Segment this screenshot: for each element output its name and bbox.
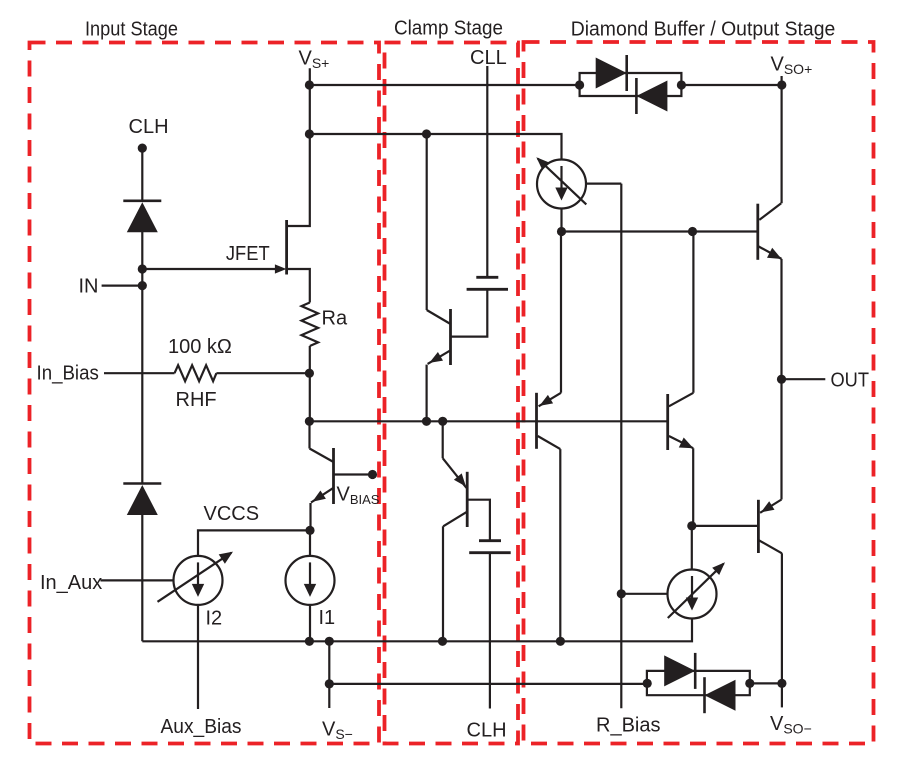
transistor Q3 collector diagonal <box>443 512 466 526</box>
transistor Q6 base bar <box>756 204 759 260</box>
wire D2 anode down to bottom rail <box>141 514 143 642</box>
diode pair D5/D6 (bottom, anti-parallel): frame <box>647 671 750 695</box>
wire I2 bottom to Aux_Bias pin <box>197 605 199 709</box>
resistor RHF 100 kOhm (zigzag) <box>175 365 217 381</box>
wire I3 control to R_Bias line <box>586 183 621 185</box>
transistor Q4 collector diagonal <box>538 436 561 449</box>
svg-text:OUT: OUT <box>831 369 870 391</box>
transistor Q3 emitter diagonal with arrow into bar <box>443 458 467 488</box>
node Q2 emitter junction <box>422 417 431 426</box>
JFET gate arrow <box>275 264 287 273</box>
node Q3 emitter junction <box>438 417 447 426</box>
node base-rail junction <box>305 417 314 426</box>
transistor Q7 (PNP, output low): emitter diagonal with arrow into bar <box>760 500 781 513</box>
wire node C down to current source I4 <box>691 526 693 569</box>
node diode pair right junction <box>677 80 686 89</box>
wire Q3 collector down to bottom rail <box>442 526 444 641</box>
wire node A down to Q4 emitter <box>560 232 562 393</box>
pin In_Aux stub wire <box>101 579 174 581</box>
node diode pair left junction <box>575 80 584 89</box>
wire Q5 collector up to node B <box>692 232 694 393</box>
node B (Q5 collector / rail junction) <box>688 227 697 236</box>
diode D4 (points left) <box>636 81 667 112</box>
wire Q4 collector down to bottom rail <box>559 449 561 641</box>
current source I4 (bottom, variable) <box>668 570 717 619</box>
wire diode pair to VSO- line <box>750 682 782 684</box>
stage boundary: Clamp Stage box <box>385 43 519 744</box>
JFET drain wire to VS+ line <box>287 68 310 226</box>
current source I4 variable arrow (diagonal up-right) <box>668 564 724 618</box>
svg-text:Clamp Stage: Clamp Stage <box>394 18 503 40</box>
transistor Q4 base bar <box>535 393 538 449</box>
svg-text:I2: I2 <box>206 608 223 630</box>
transistor Q2 collector diagonal <box>427 310 451 324</box>
node I1 bottom junction <box>305 637 314 646</box>
node In_Bias junction <box>305 369 314 378</box>
node VSO+ junction <box>777 80 786 89</box>
svg-text:VCCS: VCCS <box>204 503 260 525</box>
transistor Q3 base wire to battery VCLH <box>467 500 490 540</box>
diode D5 (points right) <box>664 655 695 686</box>
svg-text:Diamond Buffer / Output Stage: Diamond Buffer / Output Stage <box>571 19 836 41</box>
node diode pair right junction (bottom) <box>745 679 754 688</box>
svg-text:In_Aux: In_Aux <box>40 572 102 594</box>
transistor Q2 emitter with arrow <box>428 350 451 364</box>
current source I1 (fixed) <box>286 556 335 605</box>
transistor Q6 emitter with arrow <box>758 246 782 259</box>
svg-text:I1: I1 <box>319 607 336 629</box>
current source I3 (top, variable) <box>537 160 586 209</box>
wire VS- down-leg <box>328 641 330 708</box>
pin VSO+ label and stub <box>780 76 782 85</box>
svg-text:Input Stage: Input Stage <box>85 19 178 41</box>
current source I1 wire from VCCS junction <box>309 530 311 556</box>
svg-text:100 kΩ: 100 kΩ <box>168 336 232 358</box>
diode D6 (points left) <box>705 680 736 711</box>
svg-text:CLH: CLH <box>467 720 507 742</box>
JFET J1 channel bar <box>285 220 288 275</box>
svg-text:Ra: Ra <box>322 308 348 330</box>
node VSO- junction <box>777 679 786 688</box>
transistor Q5 emitter with arrow <box>669 436 693 448</box>
transistor Q1 (NPN, VBIAS buffer): collector diagonal <box>310 449 334 463</box>
pin IN stub <box>102 285 143 287</box>
wire lower rail y=684 to output stage <box>329 683 647 685</box>
current source I2 (variable VCCS) <box>174 556 223 605</box>
wire VSO- pin stub <box>781 683 783 707</box>
wire VSO+ down to Q6 collector <box>780 85 782 203</box>
svg-text:JFET: JFET <box>226 243 270 265</box>
wire rail y=231 to Q6 base <box>562 230 758 232</box>
wire diode pair to VSO+ node <box>681 84 781 86</box>
diode D2 (clamp diode, cathode up) <box>123 482 161 485</box>
stage boundary: Input Stage box <box>30 43 380 744</box>
diode pair D3/D4 (top, anti-parallel): frame <box>580 73 682 96</box>
battery VCLL (clamp offset source) <box>476 276 498 279</box>
transistor Q5 base bar <box>666 394 669 450</box>
transistor Q3 (clamp low, PNP): emitter wire <box>442 421 444 458</box>
svg-text:Aux_Bias: Aux_Bias <box>161 716 242 738</box>
wire I1 bottom to rail <box>309 605 311 641</box>
transistor Q1 emitter with arrow <box>311 488 334 503</box>
wire CLL down to battery VCLL <box>486 66 488 276</box>
node OUT junction <box>777 375 786 384</box>
node clamp junction on rail y=134 <box>422 129 431 138</box>
wire bottom rail (input stage, y=641) <box>142 620 692 642</box>
node diode pair left junction (bottom) <box>643 679 652 688</box>
current source I3 variable arrow (diagonal up-left) <box>538 159 587 205</box>
wire CLH to diode D1 <box>141 150 143 201</box>
node gate junction on IN line <box>138 264 147 273</box>
svg-text:RHF: RHF <box>176 389 217 411</box>
node C (Q5 emitter / Q7 base junction) <box>687 521 696 530</box>
svg-text:IN: IN <box>79 276 99 298</box>
wire OUT down to Q7 emitter <box>780 379 782 499</box>
wire Q7 collector down to VSO- node <box>781 553 783 683</box>
transistor Q4 (PNP, left diamond): emitter diagonal with arrow into bar <box>539 393 561 407</box>
wire I4 control to R_Bias line <box>621 593 667 595</box>
wire battery VCLH down to CLH pin <box>489 553 491 709</box>
wire Q1 emitter down to VCCS junction <box>309 503 311 530</box>
wire Ra bottom to In_Bias junction <box>309 346 311 373</box>
wire I3 bottom to diamond node A <box>560 209 562 232</box>
transistor Q2 base bar <box>449 309 452 365</box>
transistor Q7 collector diagonal <box>758 540 782 553</box>
wire R_Bias vertical line <box>620 184 622 709</box>
wire clamp base rail y=421 <box>309 420 667 422</box>
transistor Q2 (clamp high, arrow down-left): collector wire from rail <box>426 134 428 310</box>
pin OUT stub and label <box>782 378 826 380</box>
svg-text:CLL: CLL <box>470 47 507 69</box>
battery VCLH (clamp offset source) <box>479 539 501 542</box>
transistor Q3 base bar <box>466 472 469 527</box>
node IN junction <box>138 281 147 290</box>
node Q3 collector junction on bottom rail <box>438 637 447 646</box>
diode D1 (clamp diode, cathode up to CLH) <box>123 200 161 203</box>
wire VCCS control (I2 to I1 emitter node) <box>198 530 310 556</box>
wire second rail (y=134) to top current source <box>309 134 561 160</box>
current source I2 variable arrow (diagonal) <box>158 553 232 602</box>
node VS- junction lower <box>325 679 334 688</box>
wire Q5 emitter down to node C <box>692 448 694 526</box>
JFET source wire down to resistor Ra <box>287 269 310 303</box>
transistor Q7 base bar <box>757 500 760 553</box>
wire VS+ rail (y=85) to diode pair <box>309 84 579 86</box>
wire battery to Q2 base <box>452 289 488 336</box>
node R_Bias control junction <box>617 589 626 598</box>
transistor Q5 (NPN, right diamond): collector diagonal <box>669 393 694 407</box>
svg-text:CLH: CLH <box>129 116 169 138</box>
node CLH (top pin) <box>138 144 147 153</box>
wire base rail junction down to Q1 collector <box>308 421 310 448</box>
node Q4 collector junction on bottom rail <box>556 637 565 646</box>
transistor Q6 (NPN, output high): collector diagonal <box>759 203 781 220</box>
stage boundary: Diamond Buffer / Output Stage box <box>524 42 874 744</box>
svg-text:R_Bias: R_Bias <box>596 715 660 737</box>
node junction on second rail <box>305 129 314 138</box>
diode D3 (points right) <box>596 58 627 89</box>
resistor Ra (zigzag) <box>302 303 319 347</box>
wire node C to Q7 base <box>692 525 757 527</box>
node A (top CCS / rail junction) <box>557 227 566 236</box>
pin In_Bias stub wire <box>104 372 175 374</box>
wire D1 anode down through IN node to diode D2 <box>141 232 143 484</box>
transistor Q1 base bar <box>332 448 335 504</box>
wire Q6 emitter down to OUT node <box>780 259 782 379</box>
node VS+ junction on top rail <box>305 80 314 89</box>
wire In_Bias junction down to base rail <box>309 373 311 421</box>
wire IN node to JFET gate <box>142 268 277 270</box>
node VS- junction upper <box>325 637 334 646</box>
transistor Q1 base wire to VBIAS terminal <box>335 473 373 475</box>
node VBIAS terminal dot <box>368 470 377 479</box>
wire RHF to In_Bias junction <box>216 372 309 374</box>
svg-text:In_Bias: In_Bias <box>37 362 99 384</box>
node VCCS junction <box>305 526 314 535</box>
wire Q2 emitter down to clamp rail <box>426 365 428 422</box>
